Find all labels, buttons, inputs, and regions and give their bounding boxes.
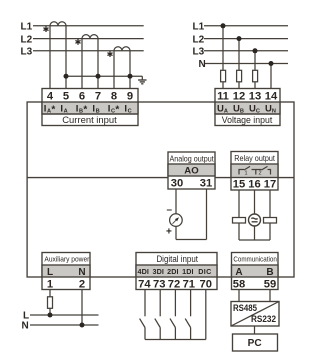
svg-text:1DI: 1DI [182,267,193,276]
svg-text:C: C [256,109,260,115]
svg-text:70: 70 [199,278,211,290]
wire 16 lower [254,226,256,240]
terminal block: communication [232,253,279,290]
svg-text:15: 15 [233,178,245,190]
switch S2 on wire 72 [170,290,175,340]
relay contact 1 [239,166,250,174]
fuse F3 [253,70,258,82]
svg-text:71: 71 [183,278,195,290]
svg-text:PC: PC [248,338,263,349]
wire 15 lower [238,223,240,240]
junction dot N [269,61,274,66]
phase line L1 (left) [33,25,144,27]
wire meter to bottom [175,226,177,240]
svg-text:N: N [199,59,206,70]
svg-text:A: A [235,267,242,278]
svg-text:Analog output: Analog output [169,154,214,163]
ac source on wire 16 [249,214,261,226]
terminal block: relay output [231,152,278,191]
junction dot L1 [221,23,226,28]
CT secondary common wire [66,75,142,77]
svg-text:5: 5 [63,91,69,103]
svg-text:B: B [266,267,273,278]
terminal block: voltage input [215,89,280,126]
current transformer CT1 on L1 [50,22,66,89]
wire from pin 59 [269,290,271,302]
terminal block: digital input [136,253,217,290]
switch S4 on wire 74 [140,290,145,340]
current transformer CT3 on L3 [114,47,130,89]
meter M1 [170,214,183,227]
junction dot L3 [253,48,258,53]
svg-text:16: 16 [248,178,260,190]
svg-text:Digital input: Digital input [156,254,198,264]
svg-text:2DI: 2DI [167,267,178,276]
polarity mark CT2 [75,39,80,45]
converter RS485/RS232 [231,302,279,327]
junction dot L supply [48,313,53,318]
svg-text:Current input: Current input [62,115,117,125]
wire bottom horizontal AO [176,239,207,241]
svg-text:N: N [272,109,276,115]
svg-text:13: 13 [249,91,261,103]
ground symbol (CT common) [138,76,146,84]
junction dot L2 [237,36,242,41]
svg-text:L3: L3 [21,47,33,58]
wire from pin 15 [238,190,240,218]
wire DIC common [205,290,207,340]
svg-text:*: * [51,105,55,116]
svg-text:2: 2 [258,170,261,176]
wire digital bottom bus [145,339,206,341]
svg-text:8: 8 [111,91,117,103]
relay contact right end [268,170,271,175]
wire converter to PC [254,326,256,334]
svg-text:L1: L1 [21,22,33,33]
svg-text:DIC: DIC [198,267,211,276]
svg-text:L2: L2 [193,34,205,45]
svg-text:3DI: 3DI [153,267,164,276]
polarity mark CT1 [43,26,48,32]
terminal block: analog output [168,152,215,189]
current transformer CT2 on L2 [82,35,98,89]
svg-text:RS485: RS485 [233,303,257,313]
junction dot terminal9 wire [128,74,133,79]
junction dot N supply [80,323,85,328]
svg-text:59: 59 [264,278,276,290]
svg-text:Communication: Communication [233,255,277,264]
svg-text:B: B [96,109,100,115]
svg-text:4DI: 4DI [138,267,149,276]
svg-text:A: A [224,109,228,115]
svg-text:–: – [167,205,173,216]
svg-text:6: 6 [79,91,85,103]
svg-text:73: 73 [153,278,165,290]
wire from pin 2 [81,290,83,326]
wire from pin 31 [206,189,208,240]
svg-text:C: C [128,109,132,115]
svg-text:14: 14 [265,91,278,103]
device outline box [27,102,294,277]
fuse F2 [237,70,242,82]
svg-text:N: N [78,267,85,278]
svg-text:AO: AO [184,165,199,176]
junction dot terminal5 wire [64,74,69,79]
wire from pin 17 [269,190,271,218]
neutral line N (right) [204,63,288,65]
svg-text:Relay output: Relay output [234,154,275,163]
polarity mark CT3 [107,51,112,57]
wire relay bottom bus [239,239,270,241]
svg-text:74: 74 [138,278,151,290]
svg-text:58: 58 [233,278,245,290]
load on wire 17 [264,218,277,224]
wire 17 lower [269,223,271,240]
terminal block: auxiliary power [42,253,90,290]
svg-text:31: 31 [200,177,212,189]
svg-text:B: B [240,109,244,115]
supply line N [30,324,99,326]
switch S3 on wire 73 [155,290,160,340]
wire from pin 16 [254,190,256,214]
svg-text:+: + [166,227,172,238]
phase line L3 (left) [33,50,144,52]
svg-text:2: 2 [79,278,85,290]
load on wire 15 [233,218,246,224]
wire terminal 14 [270,64,272,89]
svg-text:30: 30 [171,177,183,189]
svg-text:1: 1 [47,278,53,290]
fuse F4 [48,297,53,309]
PC box [233,334,278,351]
svg-text:Voltage input: Voltage input [222,115,273,125]
svg-text:L2: L2 [21,34,33,45]
svg-text:7: 7 [95,91,101,103]
phase line L1 (right) [204,25,288,27]
device midline divider [27,177,294,179]
wire from pin 58 [238,290,240,302]
junction dot terminal7 wire [96,74,101,79]
wire terminal 11 [222,26,224,89]
supply line L [30,314,99,316]
svg-text:72: 72 [168,278,180,290]
switch S1 on wire 71 [185,290,190,340]
wire from pin 1 [49,290,51,316]
svg-text:L: L [47,267,53,278]
svg-text:RS232: RS232 [251,314,276,324]
svg-text:4: 4 [47,91,54,103]
svg-text:12: 12 [233,91,245,103]
phase line L3 (right) [204,50,288,52]
svg-text:N: N [22,321,29,332]
phase line L2 (right) [204,38,288,40]
wire terminal 12 [238,39,240,89]
svg-text:L1: L1 [193,22,205,33]
fuse F1 [221,70,226,82]
svg-text:Auxiliary power: Auxiliary power [44,255,89,264]
svg-text:17: 17 [264,178,276,190]
svg-text:A: A [64,109,68,115]
svg-text:9: 9 [127,91,133,103]
wire from pin 30 [175,189,177,214]
terminal block: current input [42,89,138,126]
wire terminal 13 [254,51,256,89]
phase line L2 (left) [33,38,144,40]
relay contact 2 [252,166,268,174]
svg-text:1: 1 [244,170,247,176]
svg-text:11: 11 [217,91,229,103]
svg-text:L3: L3 [193,47,205,58]
